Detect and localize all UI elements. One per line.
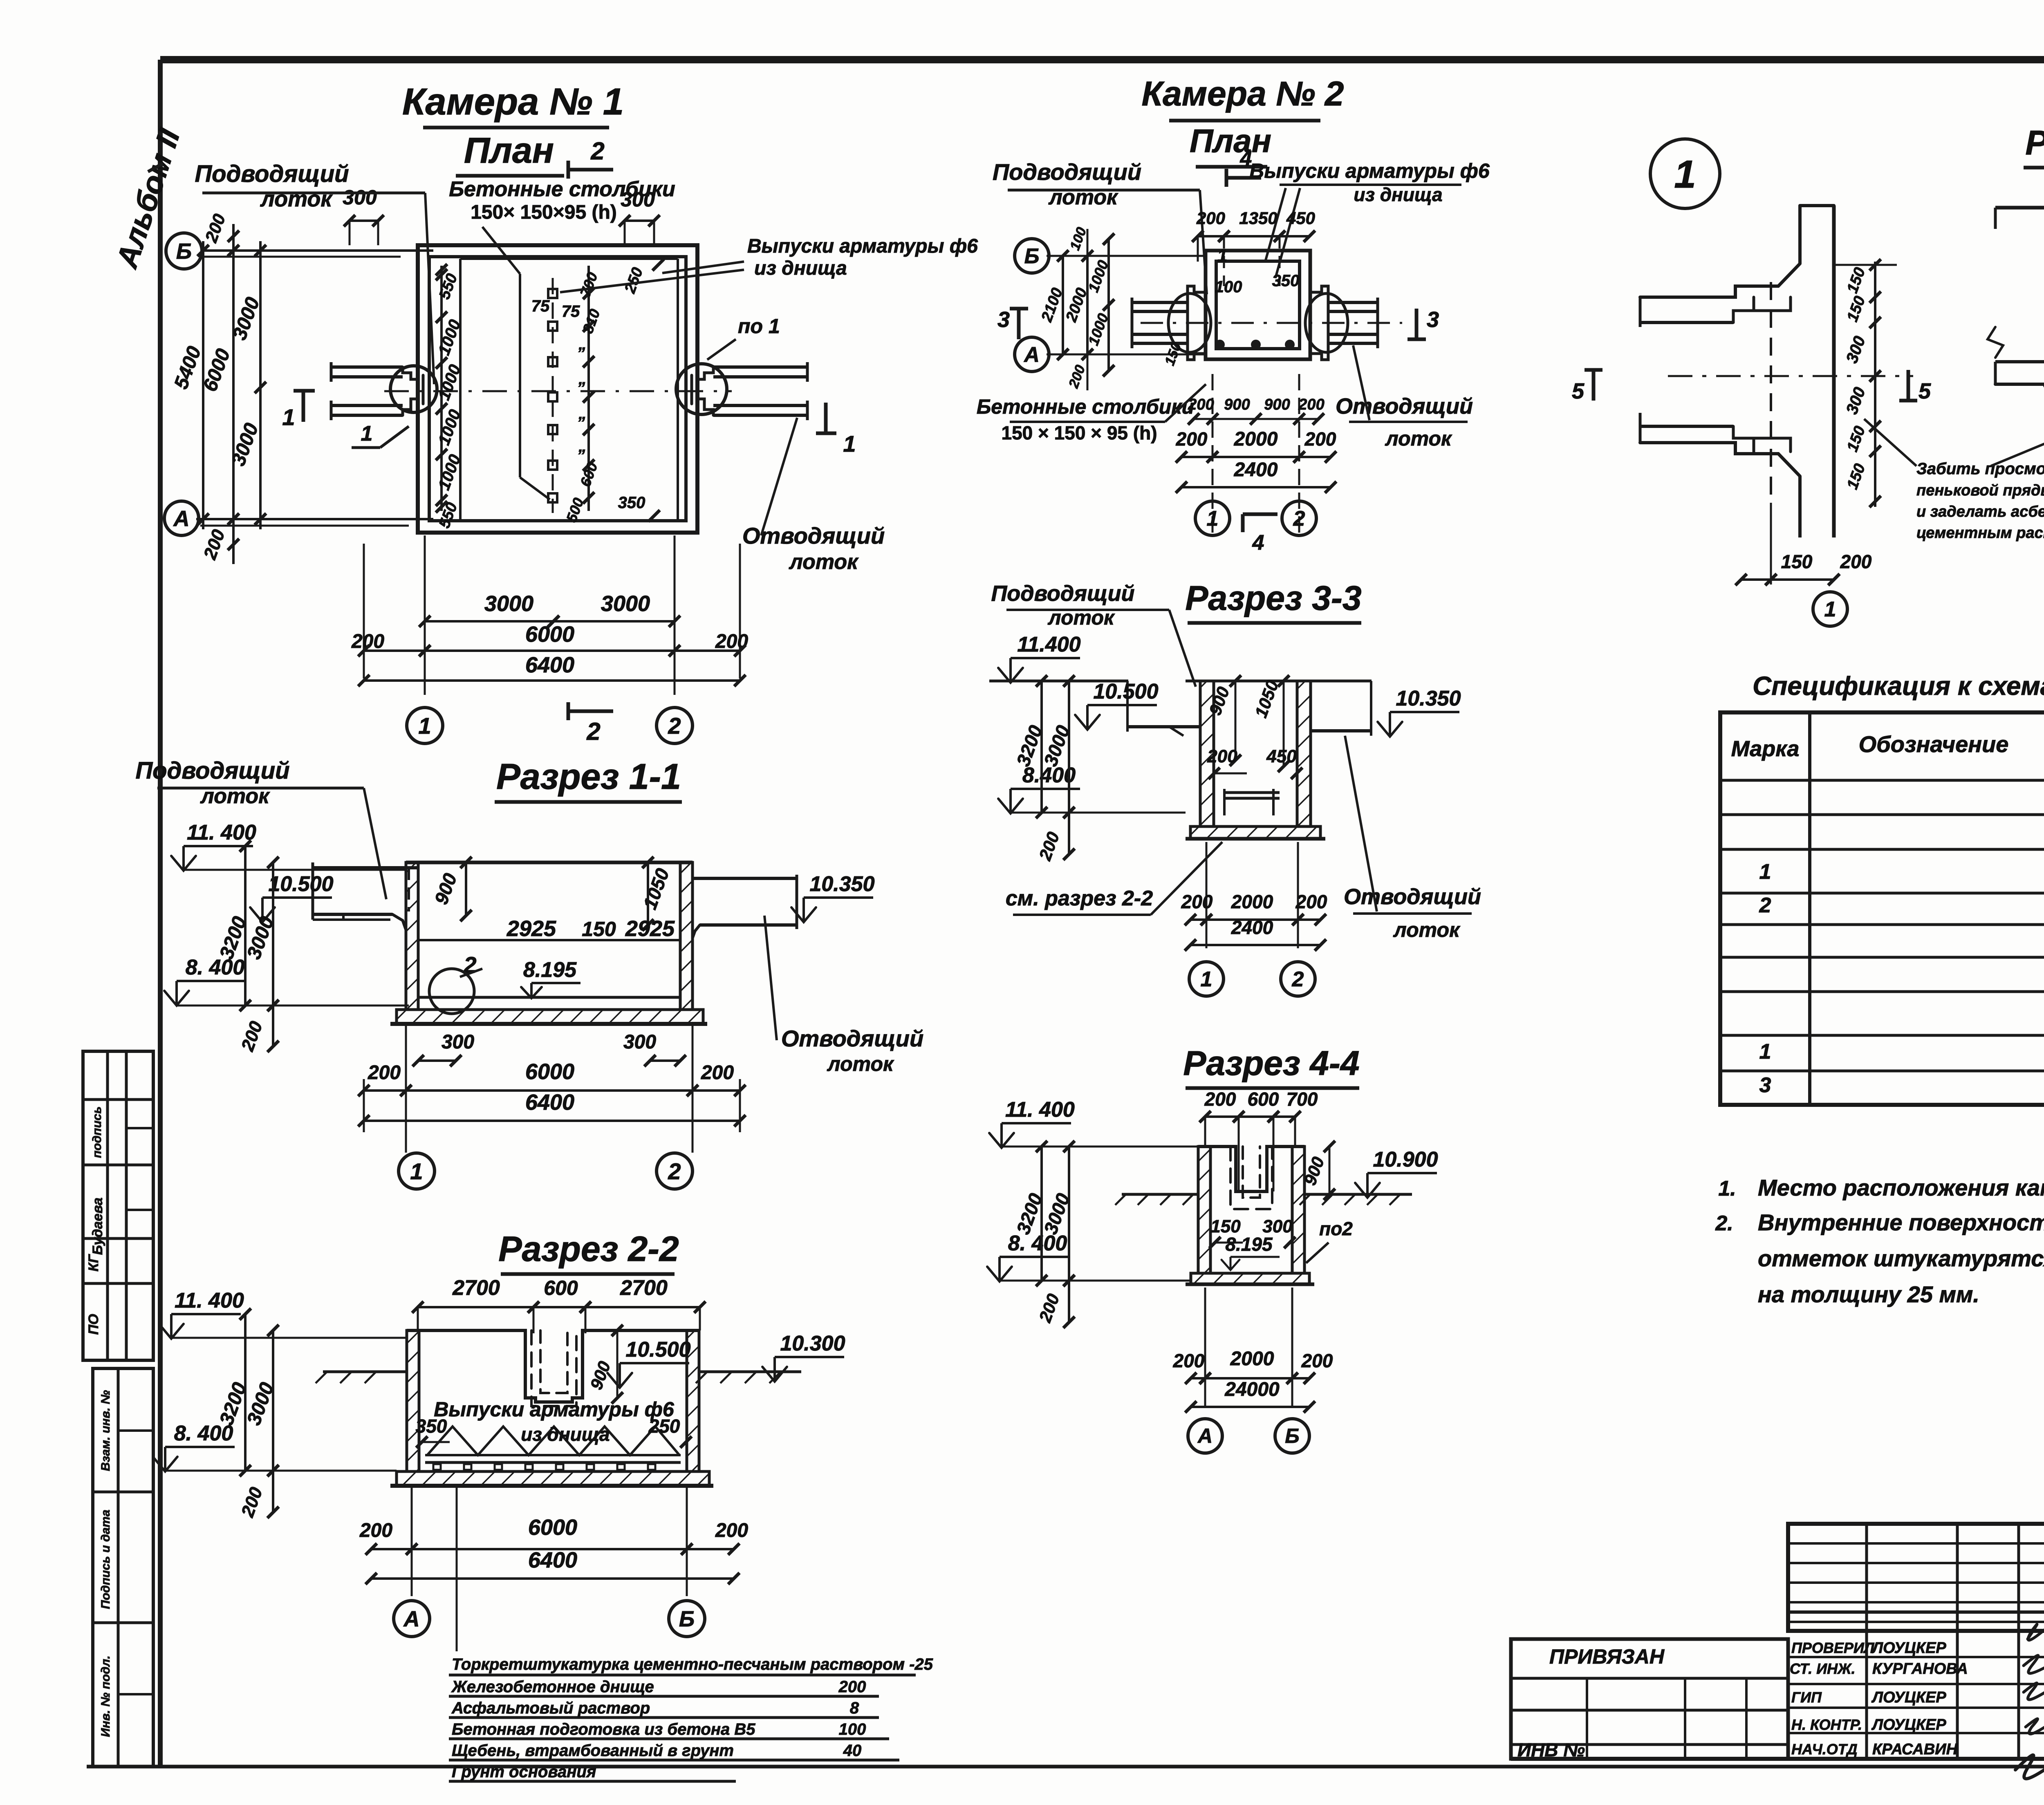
svg-text:2400: 2400 [1231,917,1273,938]
svg-text:лоток: лоток [1393,918,1461,941]
svg-text:8. 400: 8. 400 [174,1422,233,1445]
razrez 1-1 title [495,756,682,802]
svg-text:подпись: подпись [90,1106,104,1158]
plan dim 350 bottom right [618,494,660,522]
razrez 1-1 tank section [390,862,707,1024]
svg-text:1: 1 [282,404,295,430]
svg-text:А: А [403,1607,420,1631]
kamera 1 title [402,81,624,176]
svg-text:1: 1 [1759,860,1771,884]
svg-text:4: 4 [1252,531,1264,555]
detail 1 pipe joint [1640,206,1913,537]
razrez 2-2 ground lines [316,1372,801,1383]
kamera 2 inner labels [1162,246,1299,367]
svg-text:2925: 2925 [625,916,675,941]
svg-text:СТ. ИНЖ.: СТ. ИНЖ. [1790,1660,1856,1677]
svg-text:Торкретштукатурка цементно-пес: Торкретштукатурка цементно-песчаным раст… [452,1655,933,1673]
plan dim 250 top right [621,259,664,296]
svg-text:100: 100 [1215,278,1242,296]
svg-text:Место расположения камеры см: Место расположения камеры см. на листе к… [1758,1175,2044,1200]
svg-text:„: „ [578,405,587,423]
svg-text:из днища: из днища [754,258,847,279]
svg-text:2.: 2. [1715,1212,1733,1235]
svg-text:лоток: лоток [1385,427,1452,450]
plan inner dim chain left 550-1000 [435,264,464,531]
razrez 5-5 title [2024,123,2044,168]
svg-text:1: 1 [1207,507,1219,531]
svg-text:цементным раствором: цементным раствором [1916,524,2044,542]
razrez 3-3 bottom dims [1181,842,1327,996]
svg-text:200: 200 [1173,1350,1205,1371]
svg-text:450: 450 [1286,208,1315,228]
svg-text:План: План [1190,123,1271,159]
svg-text:1: 1 [1201,967,1213,991]
svg-text:на толщину 25 мм.: на толщину 25 мм. [1758,1281,1979,1307]
svg-text:Б: Б [1024,244,1040,268]
svg-text:Выпуски арматуры ф6: Выпуски арматуры ф6 [1249,159,1490,182]
svg-text:700: 700 [1286,1088,1318,1110]
svg-text:Разрез 1-1: Разрез 1-1 [496,756,681,797]
concrete posts column [548,278,557,513]
svg-text:Забить просмоленной: Забить просмоленной [1916,460,2044,478]
section mark 3 left [997,307,1028,339]
razrez 1-1 inner dims [429,857,675,1014]
svg-text:6000: 6000 [528,1515,577,1540]
section mark 4 bottom [1243,514,1277,555]
svg-text:2700: 2700 [452,1276,500,1300]
svg-text:КГ: КГ [86,1254,101,1272]
svg-text:1.: 1. [1718,1177,1736,1200]
plan kamera 1 centerline [384,390,732,392]
kamera 2 right channel [1305,293,1378,352]
svg-text:1: 1 [361,422,373,446]
label vypuski armatury plan1 [560,235,978,292]
svg-text:Н. КОНТР.: Н. КОНТР. [1791,1716,1862,1733]
svg-text:А: А [173,506,190,531]
svg-text:200: 200 [1196,208,1225,228]
razrez 1-1 elevation 8.400 [164,956,409,1006]
detail 1 bottom dims [1735,503,1872,626]
kamera 2 left dim chains [1038,225,1114,390]
razrez 4-4 inner dims [1209,1216,1353,1270]
svg-text:900: 900 [1264,396,1290,413]
svg-text:ГИП: ГИП [1791,1689,1822,1706]
svg-text:Разрез 4-4: Разрез 4-4 [1183,1044,1359,1082]
razrez 3-3 label podvodyashchiy [991,581,1196,687]
svg-text:1: 1 [1217,246,1227,266]
svg-text:План: План [464,130,554,170]
svg-text:„: „ [578,370,587,388]
svg-text:1: 1 [1824,598,1836,621]
svg-text:10.900: 10.900 [1373,1148,1438,1171]
svg-text:Бетонные столбики: Бетонные столбики [449,177,675,201]
axis line B horizontal [166,233,433,269]
svg-text:1350: 1350 [1239,208,1277,228]
section mark 1 left [282,391,315,430]
svg-text:200: 200 [715,1520,748,1541]
svg-text:6400: 6400 [528,1548,577,1572]
razrez 1-1 left channel [313,862,418,930]
svg-text:2925: 2925 [507,916,556,941]
kamera 2 left channel [1132,293,1211,352]
svg-text:и заделать асбесто-: и заделать асбесто- [1916,503,2044,520]
razrez 1-1 label otvodyashchiy [764,916,923,1075]
left stamp strip upper table [83,1051,153,1360]
svg-text:10.300: 10.300 [780,1332,845,1355]
razrez 3-3 see razrez 2-2 note [1006,842,1222,915]
svg-text:по 1: по 1 [738,315,780,338]
razrez 4-4 top dims [1199,1088,1318,1191]
svg-text:8.195: 8.195 [1225,1234,1273,1255]
label po 1 [707,315,780,360]
svg-text:150: 150 [582,918,616,941]
left stamp strip lower table [93,1368,153,1767]
svg-text:ЛОУЦКЕР: ЛОУЦКЕР [1871,1639,1946,1657]
svg-text:200: 200 [1840,551,1872,572]
razrez 2-2 bottom dims [359,1488,748,1637]
razrez 1-1 label podvodyashchiy [135,757,386,899]
svg-text:лоток: лоток [788,550,859,574]
razrez 1-1 elevation 10.350 [791,872,875,922]
razrez 1-1 elevation 10.500 [250,872,334,922]
razrez 4-4 elevations [987,1098,1438,1281]
svg-text:см. разрез 2-2: см. разрез 2-2 [1006,887,1153,910]
svg-text:днища: днища [547,1424,610,1445]
razrez 4-4 ground lines [1115,1194,1412,1205]
svg-text:Бетонные столбики: Бетонные столбики [977,395,1194,418]
svg-text:Камера № 1: Камера № 1 [402,81,624,123]
title block texts [1517,1543,2044,1760]
svg-text:75: 75 [562,302,580,320]
svg-text:пеньковой прядью: пеньковой прядью [1916,482,2044,499]
label otvodyashchiy lotok plan1 [742,418,885,574]
svg-text:„: „ [578,437,587,455]
layers list table [449,1488,933,1781]
svg-text:Отводящий: Отводящий [1344,885,1481,909]
svg-text:Разрез 3-3: Разрез 3-3 [1185,579,1361,617]
spec table header text [1731,730,2044,780]
spec table kamera2 section rows [1759,963,2044,1106]
top dim 300 right post [619,188,660,245]
svg-text:200: 200 [701,1062,734,1084]
section mark 1 right [816,403,856,457]
svg-text:2: 2 [668,713,681,739]
plan kamera 1 tank walls [418,245,697,533]
razrez 4-4 left dims [1012,1141,1075,1328]
kamera 2 bottom dims [1176,374,1336,535]
svg-text:2400: 2400 [1234,459,1278,481]
section mark 2 bottom [568,702,613,745]
svg-text:11. 400: 11. 400 [187,821,256,844]
svg-text:КРАСАВИН: КРАСАВИН [1872,1741,1958,1758]
section mark 4 top [1226,147,1261,187]
kamera 2 axis circles [1015,239,1206,372]
svg-text:Спецификация к схемам, распо: Спецификация к схемам, расположенным на … [1753,671,2044,701]
svg-text:200: 200 [359,1520,392,1541]
svg-text:200: 200 [351,631,384,652]
plan inner dim chain middle 75-75 [531,266,603,524]
svg-text:6400: 6400 [525,653,574,677]
svg-text:5: 5 [1572,379,1585,403]
svg-text:200: 200 [1188,396,1214,413]
svg-text:Выпуски арматуры ф6: Выпуски арматуры ф6 [434,1398,675,1421]
svg-text:2: 2 [1293,507,1305,531]
svg-text:600: 600 [544,1276,578,1299]
svg-text:200: 200 [1204,1088,1236,1110]
svg-text:Грунт основания: Грунт основания [452,1763,596,1781]
svg-text:Подводящий: Подводящий [195,161,349,187]
svg-text:Подводящий: Подводящий [135,757,289,784]
svg-text:„: „ [578,335,587,353]
razrez 4-4 bottom dims [1173,1288,1333,1453]
svg-text:8: 8 [850,1699,859,1717]
svg-text:лоток: лоток [827,1053,894,1075]
svg-text:350: 350 [416,1415,447,1437]
kamera 2 label betonnye stolbiki [977,384,1206,443]
razrez 3-3 label otvodyashchiy [1344,736,1481,941]
svg-text:900: 900 [1224,396,1250,413]
svg-text:300: 300 [623,1031,656,1053]
razrez 2-2 inner labels [416,1325,692,1448]
svg-text:1: 1 [1674,152,1696,196]
section mark 2 top [568,137,613,179]
spec table grid [1720,712,2044,1105]
label betonnye stolbiki plan1 [449,177,675,499]
svg-text:Будаева: Будаева [90,1198,105,1255]
kamera 2 label vypuski [1249,159,1490,278]
svg-text:2: 2 [586,718,600,745]
svg-text:1: 1 [1759,1040,1771,1064]
svg-text:Б: Б [176,239,192,264]
svg-text:2: 2 [1759,894,1771,917]
svg-text:3000: 3000 [601,591,650,616]
svg-text:Обозначение: Обозначение [1859,731,2009,757]
razrez 3-3 elevations [998,633,1461,813]
svg-text:Щебень, втрамбованный в грунт: Щебень, втрамбованный в грунт [452,1742,734,1760]
svg-text:Выпуски арматуры ф6: Выпуски арматуры ф6 [747,235,978,257]
svg-text:200: 200 [1298,396,1324,413]
svg-text:150 × 150 × 95 (h): 150 × 150 × 95 (h) [1001,422,1157,443]
svg-text:1: 1 [418,713,431,739]
svg-text:ИНВ №: ИНВ № [1517,1739,1585,1760]
svg-text:Железобетонное днище: Железобетонное днище [451,1678,654,1696]
svg-text:200: 200 [1301,1350,1333,1371]
svg-text:А: А [1023,343,1040,367]
svg-text:лоток: лоток [260,187,333,211]
svg-text:3000: 3000 [484,591,533,616]
svg-text:3: 3 [1759,1073,1771,1097]
svg-text:ПО: ПО [86,1314,101,1335]
razrez 5-5 wall section [1988,208,2044,537]
svg-text:200: 200 [1207,746,1237,766]
razrez 2-2 elevation marks [153,1289,845,1471]
svg-text:Инв. № подл.: Инв. № подл. [99,1655,112,1737]
svg-text:Отводящий: Отводящий [1336,394,1473,419]
axis line A horizontal [164,501,433,535]
svg-text:300: 300 [442,1031,474,1053]
razrez 2-2 title [498,1229,679,1274]
svg-text:Подводящий: Подводящий [991,581,1134,606]
razrez 2-2 left dims [215,1308,279,1520]
svg-text:10.350: 10.350 [1396,687,1461,710]
svg-text:24000: 24000 [1224,1379,1280,1400]
svg-text:10.500: 10.500 [625,1338,690,1362]
svg-text:Отводящий: Отводящий [781,1026,923,1051]
top dim 300 left post [343,186,384,245]
svg-text:200: 200 [1176,428,1208,450]
svg-text:ЛОУЦКЕР: ЛОУЦКЕР [1871,1689,1946,1706]
outlet channel pipe right [676,362,807,420]
razrez 3-3 section [989,681,1372,839]
label podvodyashchiy lotok plan1 [195,161,434,384]
detail 1 right dim chain [1834,259,1897,507]
razrez 1-1 bottom dims [358,1026,746,1189]
svg-text:Камера № 2: Камера № 2 [1142,74,1344,113]
svg-text:3: 3 [997,307,1010,332]
svg-text:350: 350 [618,494,645,512]
svg-text:300: 300 [343,186,377,209]
svg-text:200: 200 [1304,428,1336,450]
svg-text:11.400: 11.400 [1017,633,1080,656]
svg-text:2700: 2700 [620,1276,668,1300]
razrez 2-2 tank section [390,1330,713,1486]
album label Album II rotated [110,124,186,273]
svg-text:40: 40 [843,1742,862,1760]
razrez 1-1 elevation 11.400 [171,821,405,871]
svg-text:Разрез 2-2: Разрез 2-2 [498,1229,679,1269]
kamera 2 top dims [1192,208,1315,286]
svg-text:10.500: 10.500 [1093,680,1158,703]
svg-text:10.500: 10.500 [268,872,333,896]
kamera 2 label podvodyashchiy [993,159,1207,294]
svg-text:из днища: из днища [1354,184,1442,205]
svg-text:А: А [1197,1424,1213,1447]
left dim chains plan1 [170,211,266,564]
svg-text:отметок штукатурятся цементн: отметок штукатурятся цементно-песчаным р… [1758,1245,2044,1271]
title block outline [1511,1524,2044,1759]
svg-text:150: 150 [1781,551,1813,572]
svg-text:Внутренние поверхности стен: Внутренние поверхности стен и наружные -… [1758,1209,2044,1235]
kamera 2 label otvodyashchiy [1336,345,1473,450]
svg-text:Подводящий: Подводящий [993,159,1141,185]
signatures squiggles [2015,1621,2044,1779]
svg-text:ПРИВЯЗАН: ПРИВЯЗАН [1549,1645,1665,1668]
kamera 2 plan walls [1188,251,1328,360]
razrez 1-1 left dims 3200 3000 [215,840,279,1054]
svg-text:ЛОУЦКЕР: ЛОУЦКЕР [1871,1716,1946,1733]
detail 1 section marks 5 [1572,370,1931,403]
svg-text:450: 450 [1266,746,1297,766]
svg-text:350: 350 [1272,272,1300,290]
svg-text:10.350: 10.350 [809,872,874,896]
kamera 2 title [1142,74,1344,167]
svg-text:6000: 6000 [525,1059,574,1084]
svg-text:6000: 6000 [525,622,574,647]
notes text [1715,1175,2044,1307]
svg-text:ПРОВЕРИЛ: ПРОВЕРИЛ [1791,1639,1875,1656]
svg-text:100: 100 [839,1720,866,1738]
razrez 3-3 title [1185,579,1361,623]
bottom dim chains plan1 [351,535,748,743]
item label 1 leader at left bell [352,422,409,448]
svg-text:Взам. инв. №: Взам. инв. № [99,1390,112,1471]
svg-text:2000: 2000 [1234,428,1278,450]
svg-text:из: из [521,1424,542,1445]
svg-text:НАЧ.ОТД: НАЧ.ОТД [1791,1741,1858,1758]
svg-text:Б: Б [679,1607,695,1631]
detail callout circle 1 big [1650,139,1720,208]
razrez 4-4 title [1183,1044,1359,1088]
svg-text:600: 600 [1248,1088,1279,1110]
svg-text:2: 2 [1292,967,1304,991]
svg-text:8.195: 8.195 [523,958,577,982]
kamera 2 centerline [1141,322,1402,324]
svg-text:11. 400: 11. 400 [175,1289,244,1312]
svg-text:Разрез 5-5: Разрез 5-5 [2025,123,2044,162]
svg-text:200: 200 [368,1062,401,1084]
svg-text:Б: Б [1285,1424,1299,1447]
svg-text:2: 2 [590,137,604,165]
svg-text:по2: по2 [1319,1218,1353,1239]
inlet channel pipe left [331,362,437,420]
spec table kamera1 section rows [1759,786,2044,927]
svg-text:150× 150×95 (h): 150× 150×95 (h) [471,202,617,223]
razrez 5-5 note text zabito [1864,418,2044,542]
svg-text:Асфальтовый раствор: Асфальтовый раствор [451,1699,650,1717]
svg-text:2: 2 [668,1158,681,1184]
svg-text:1: 1 [843,431,856,457]
svg-text:Бетонная подготовка из бетона: Бетонная подготовка из бетона В5 [452,1720,755,1738]
razrez 4-4 section [1186,1147,1314,1284]
svg-text:250: 250 [648,1415,680,1437]
svg-text:2000: 2000 [1230,1348,1274,1370]
svg-text:200: 200 [838,1678,866,1696]
svg-text:5: 5 [1918,379,1931,403]
svg-text:Подпись и дата: Подпись и дата [99,1509,112,1609]
svg-text:11. 400: 11. 400 [1005,1098,1075,1122]
svg-text:200: 200 [1181,891,1213,912]
razrez 2-2 top dims [412,1276,706,1333]
svg-text:КУРГАНОВА: КУРГАНОВА [1872,1660,1968,1677]
svg-text:Марка: Марка [1731,737,1800,761]
svg-text:200: 200 [1295,891,1327,912]
svg-text:1: 1 [410,1158,423,1184]
section mark 3 right [1407,307,1439,339]
razrez 1-1 right channel [693,875,797,938]
svg-text:2000: 2000 [1231,891,1273,912]
svg-text:6400: 6400 [525,1090,574,1115]
razrez 3-3 dims [1012,675,1302,863]
svg-text:75: 75 [531,297,550,315]
svg-text:3: 3 [1427,307,1439,332]
